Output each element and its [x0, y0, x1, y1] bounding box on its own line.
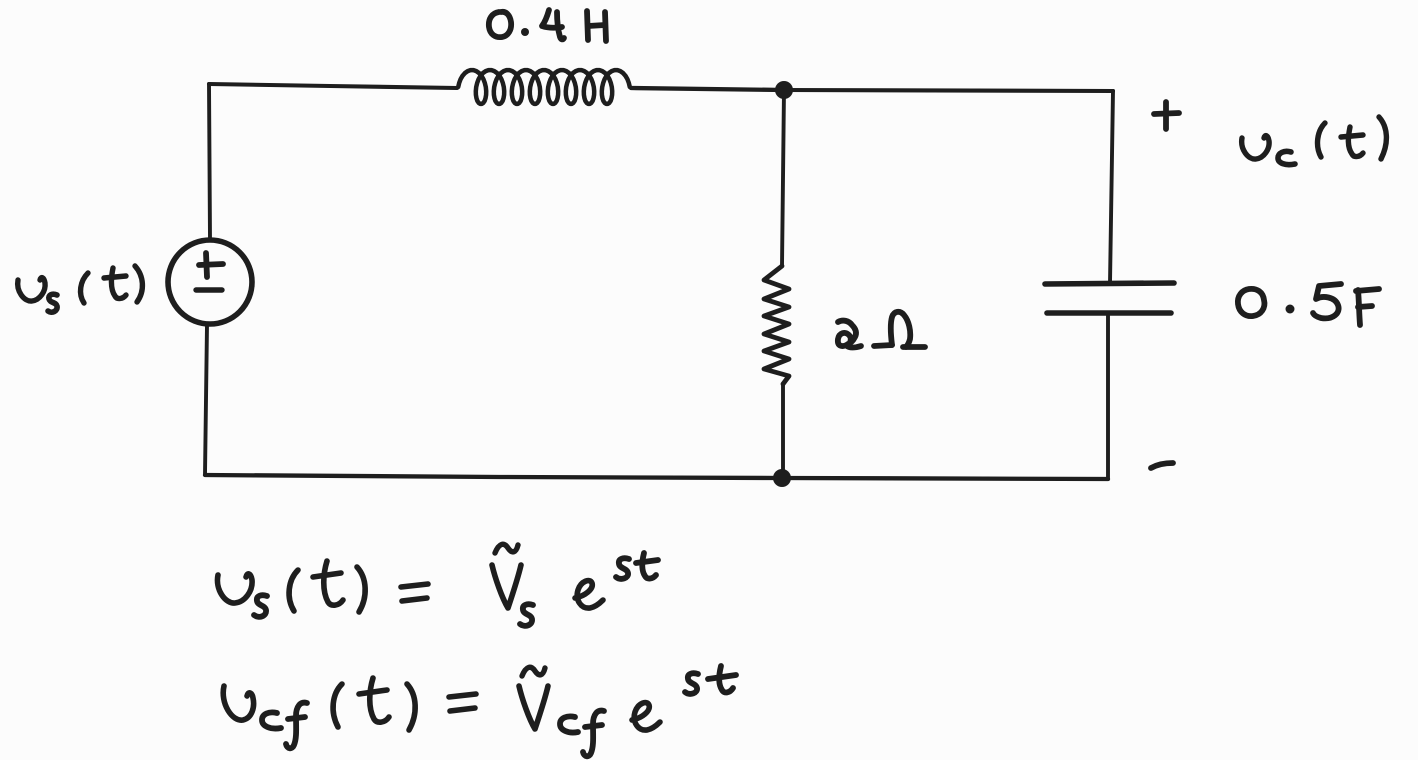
- wire middle vertical (resistor top lead): [782, 90, 784, 266]
- wire right vertical (capacitor top lead): [1110, 91, 1113, 283]
- polarity plus (vc): [1154, 113, 1179, 114]
- inductor L1 0.4 H: [458, 70, 630, 104]
- wire top-right segment: [784, 90, 1113, 91]
- wire left vertical (source top lead): [209, 84, 210, 239]
- resistor R1 zigzag: [764, 266, 789, 384]
- capacitor C1 bottom plate: [1047, 310, 1171, 316]
- label 2 ohm: [838, 321, 861, 348]
- source minus sign: [196, 287, 222, 292]
- voltage source Vs: [168, 240, 252, 324]
- label 0.5 F: [1238, 289, 1265, 316]
- wire top-middle segment: [631, 88, 784, 90]
- junction node top: [775, 81, 793, 99]
- wire top-left segment: [209, 84, 457, 88]
- label 0.4 H: [489, 12, 511, 37]
- capacitor C1 top plate: [1045, 283, 1174, 284]
- polarity minus (vc): [1151, 463, 1173, 468]
- wire left vertical (source bottom lead): [205, 325, 207, 474]
- source plus sign: [199, 264, 223, 265]
- label vc(t): [1242, 136, 1269, 159]
- wire bottom: [205, 475, 1108, 479]
- junction node bottom: [773, 469, 791, 487]
- equation vcf(t) = Vcf e^st: [223, 686, 253, 720]
- wire middle vertical (resistor bottom lead): [781, 384, 785, 478]
- wire right vertical (capacitor bottom lead): [1106, 313, 1110, 479]
- label vs(t): [18, 278, 45, 301]
- equation vs(t) = Vs e^st: [217, 574, 252, 603]
